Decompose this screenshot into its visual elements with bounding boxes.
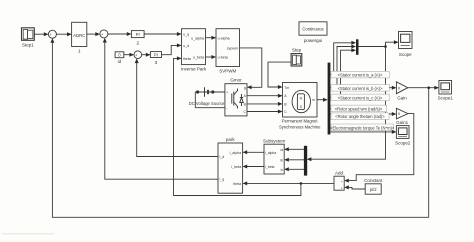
arrowhead into Demux (pointing left) <box>307 157 312 161</box>
arrowhead into Sum2 bottom (pointing up) <box>103 38 107 43</box>
arrowhead into bus selector <box>323 98 328 102</box>
wire DC source loop left <box>194 92 196 108</box>
svg-text:<Stator current is_b (A)>: <Stator current is_b (A)> <box>338 86 383 91</box>
svg-text:u_alpha: u_alpha <box>191 36 204 40</box>
arrowhead into park i_alpha (pointing left) <box>243 150 248 154</box>
svg-text:u_d: u_d <box>183 44 189 48</box>
wire inverter C to PMSM C <box>247 111 282 113</box>
junction on Gain-Scope1 wire <box>427 86 430 89</box>
svg-text:Constant: Constant <box>364 178 383 183</box>
svg-text:<Stator current is_c (A)>: <Stator current is_c (A)> <box>338 95 383 100</box>
wire speed feedback from Gain output to Sum1 <box>52 39 428 217</box>
svg-text:u-alpha: u-alpha <box>218 36 230 40</box>
svg-text:<Stator current is_a (A)>: <Stator current is_a (A)> <box>338 73 383 78</box>
svg-text:m: m <box>312 98 315 102</box>
svg-text:u-beta: u-beta <box>218 56 228 60</box>
sum block Add <box>334 176 344 190</box>
arrowhead into ADRC <box>67 32 72 36</box>
svg-text:+: + <box>341 187 343 191</box>
wire bus row1 is_a to Mux in1 <box>330 43 355 75</box>
svg-text:ib: ib <box>280 158 283 162</box>
svg-text:<Rotor angle thetam (rad)>: <Rotor angle thetam (rad)> <box>335 114 385 119</box>
signal label Electromagnetic torque Te <box>330 124 395 131</box>
svg-text:u_q: u_q <box>183 32 189 36</box>
source DC Voltage Source (battery symbol) <box>196 87 214 96</box>
wire Mux to Scope <box>359 42 398 46</box>
summing junction Sum1 <box>48 30 56 39</box>
arrowhead into Scope1 <box>434 86 439 90</box>
controller block PI 3 <box>150 52 161 58</box>
wire PMSM m to Bus Selector <box>317 99 327 101</box>
svg-text:i_q: i_q <box>219 178 224 182</box>
label Subsystem <box>263 139 286 144</box>
arrowhead into Inverse Park u_q <box>177 32 182 36</box>
wire Demux out2 to Subsystem ib <box>285 159 304 161</box>
scope block Scope1 <box>439 81 452 95</box>
label Inverse Park <box>181 66 207 71</box>
wire Sum3 to PI3 <box>142 54 150 56</box>
svg-text:+: + <box>226 91 228 95</box>
arrowhead into park i_beta (pointing left) <box>243 165 248 169</box>
arrowhead into Sum1 bottom (pointing up) <box>50 38 54 43</box>
wire Step1 to Sum1 <box>34 33 47 35</box>
wire theta branch to Inverse Park theta <box>174 58 301 195</box>
svg-text:Scope2: Scope2 <box>395 140 411 145</box>
arrowhead into Inverse Park u_d <box>177 43 182 47</box>
svg-text:<Electromagnetic torque Te (N*: <Electromagnetic torque Te (N*m)> <box>330 125 395 130</box>
svg-text:Step: Step <box>292 48 302 53</box>
arrowhead into Gain <box>392 86 397 90</box>
signal label Stator current is_b <box>331 85 389 92</box>
svg-text:i_beta: i_beta <box>231 165 241 169</box>
label DC Voltage Source <box>189 101 225 106</box>
arrowhead into PMSM B <box>278 102 283 106</box>
label Scope1 <box>438 95 454 100</box>
label Permanent Magnet Synchronous Machine <box>279 119 321 130</box>
label Scope2 <box>395 140 411 145</box>
mux (black bar) <box>356 39 359 55</box>
constant block 0 (id reference) <box>115 52 124 58</box>
label Add <box>335 171 344 176</box>
junction on theta wire <box>300 182 303 185</box>
transform block park <box>218 143 243 193</box>
signal label Rotor speed wm <box>331 105 387 112</box>
svg-text:pi/2: pi/2 <box>370 187 377 192</box>
label Step <box>292 48 302 53</box>
arrowhead into Scope2 <box>392 130 397 134</box>
arrowhead into Sum1 <box>44 32 49 36</box>
arrowhead into Sum3 <box>129 53 134 57</box>
arrowhead into PMSM A <box>278 94 283 98</box>
source block Step (load torque) <box>291 54 302 66</box>
arrowhead into PI3 <box>146 53 151 57</box>
label Constant <box>364 178 383 183</box>
wire Add theta to park theta <box>243 182 334 184</box>
wire Subsystem i_alpha to park <box>243 151 264 153</box>
svg-text:PI: PI <box>154 52 158 57</box>
arrowhead into inverter gate g (pointing left) <box>247 85 252 89</box>
arrowhead into SVPWM u-beta <box>211 55 216 59</box>
wire bus row6 torque to Scope2 <box>330 131 395 133</box>
svg-text:Subsystem: Subsystem <box>263 139 286 144</box>
arrowhead into park theta (pointing left) <box>243 181 248 185</box>
arrowhead into SVPWM u-alpha <box>211 36 216 40</box>
solver block powergui (Continuous) <box>299 22 327 35</box>
arrowhead into PMSM C <box>278 110 283 114</box>
svg-text:<Rotor speed wm (rad/s)>: <Rotor speed wm (rad/s)> <box>335 106 383 111</box>
label 2 (under PI) <box>136 41 139 46</box>
scope block Scope2 <box>396 126 409 139</box>
svg-text:ADRC: ADRC <box>73 33 85 38</box>
wire inverter A to PMSM A <box>247 95 282 97</box>
wire PI2 to Inverse Park u_q <box>144 33 181 35</box>
wire bus row5 rotor angle to Gain1 <box>330 113 395 115</box>
modulator block SVPWM <box>216 29 240 67</box>
svg-text:powergui: powergui <box>304 38 322 43</box>
svg-text:+: + <box>341 180 343 184</box>
wire mux output branch down to Demux <box>308 47 386 160</box>
arrowhead into Subsystem ib (pointing left) <box>284 158 289 162</box>
controller block ADRC U1 <box>72 22 87 46</box>
machine block PMSM <box>283 83 318 118</box>
svg-text:Tm: Tm <box>284 86 289 90</box>
wire bus row2 is_b to Mux in2 <box>330 47 355 88</box>
svg-text:Synchronous Machine: Synchronous Machine <box>279 125 321 130</box>
wire Gain to Scope1 <box>408 87 438 89</box>
label Gmor (inverter) <box>230 77 242 82</box>
svg-text:i_alpha: i_alpha <box>265 151 276 155</box>
junction on mux-scope wire <box>384 45 387 48</box>
svg-text:u_beta: u_beta <box>193 55 204 59</box>
wire Demux out1 to Subsystem ia <box>285 148 304 150</box>
bus selector (black bar) <box>328 63 331 135</box>
svg-text:theta: theta <box>183 57 191 61</box>
svg-text:i_d: i_d <box>219 155 224 159</box>
svg-text:g: g <box>244 86 246 90</box>
svg-text:i_alpha: i_alpha <box>229 151 241 155</box>
label Step1 <box>22 43 34 48</box>
svg-text:Gain: Gain <box>397 95 407 100</box>
svg-text:Inverse Park: Inverse Park <box>181 66 207 71</box>
arrowhead into Add input1 (pointing left) <box>344 179 349 183</box>
svg-text:Permanent Magnet: Permanent Magnet <box>282 119 318 124</box>
transform block Inverse Park <box>182 29 206 65</box>
label 3 (under PI) <box>155 60 158 65</box>
arrowhead into Mux in3 <box>351 48 356 52</box>
demux (black bar) <box>304 146 307 176</box>
svg-text:id: id <box>118 59 122 64</box>
wire Step to PMSM Tm <box>268 62 291 87</box>
signal label Rotor angle thetam <box>331 113 389 120</box>
controller block PI 2 <box>131 31 144 38</box>
label 1 (under ADRC) <box>78 49 81 54</box>
svg-text:Scope: Scope <box>399 52 412 57</box>
wire Inverse Park u_beta to SVPWM <box>206 56 216 58</box>
label powergui <box>304 38 322 43</box>
svg-text:Gmor: Gmor <box>230 77 242 82</box>
svg-text:theta: theta <box>233 182 241 186</box>
arrowhead into Inverse Park theta <box>177 56 182 60</box>
wire Gain1 to Add input1 <box>345 114 414 181</box>
svg-text:i_beta: i_beta <box>265 165 275 169</box>
svg-text:Gain1: Gain1 <box>396 120 409 125</box>
svg-text:PI: PI <box>136 32 140 37</box>
label id (under constant 0) <box>118 59 122 64</box>
inverter block Gmor (IGBT bridge) <box>225 84 247 116</box>
wire DC source loop bottom <box>195 107 225 109</box>
arrowhead into Mux in1 <box>351 41 356 45</box>
arrowhead into Add input2 (pointing left) <box>344 185 349 189</box>
wire SVPWM svpwm to inverter gate g <box>240 48 262 87</box>
arrowhead into Subsystem ia (pointing left) <box>284 147 289 151</box>
wire bus row3 is_c to Mux in3 <box>330 50 355 97</box>
source block Step1 <box>22 28 35 41</box>
wire Constant id to Sum3 <box>124 54 133 56</box>
arrowhead into Mux in2 <box>351 45 356 49</box>
label Scope <box>399 52 412 57</box>
svg-text:Step1: Step1 <box>22 43 34 48</box>
arrowhead into PMSM Tm <box>278 85 283 89</box>
wire PI3 to Inverse Park u_d <box>162 45 181 54</box>
label SVPWM <box>219 68 236 73</box>
wire ADRC to Sum2 <box>87 33 99 35</box>
arrowhead into Sum2 <box>95 32 100 36</box>
signal label Stator current is_c <box>331 94 389 101</box>
wire bus row4 rotor speed stub <box>330 107 344 109</box>
svg-text:ic: ic <box>281 168 284 172</box>
transform block Subsystem (Clarke) <box>264 144 284 174</box>
gain block Gain <box>396 82 407 94</box>
wire Constant pi/2 to Add input2 <box>345 187 365 189</box>
wire Subsystem i_beta to park <box>243 166 264 168</box>
arrowhead into Scope <box>394 40 399 44</box>
summing junction Sum2 <box>100 30 108 39</box>
signal label Stator current is_a <box>331 71 389 78</box>
svg-text:park: park <box>226 137 236 142</box>
arrowhead into PI2 <box>127 32 132 36</box>
wire DC source loop top <box>195 91 225 93</box>
svg-text:svpwm: svpwm <box>227 47 238 51</box>
scope block Scope <box>399 32 413 49</box>
wire bus row2 is_b to Gain <box>330 87 395 89</box>
wire Demux out3 to Subsystem ic <box>285 168 304 170</box>
svg-text:Scope1: Scope1 <box>438 95 454 100</box>
wire Sum1 to ADRC <box>56 33 70 35</box>
arrowhead into Subsystem ic (pointing left) <box>284 167 289 171</box>
summing junction Sum3 <box>134 51 142 60</box>
arrowhead into Sum3 bottom (pointing up) <box>135 59 139 64</box>
svg-text:Add: Add <box>335 171 344 176</box>
wire park i_q feedback to Sum2 <box>105 39 218 179</box>
label park <box>226 137 236 142</box>
wire park i_d feedback to Sum3 <box>137 59 218 156</box>
wire inverter B to PMSM B <box>247 103 282 105</box>
arrowhead into Gain1 <box>392 112 397 116</box>
label Gain <box>397 95 407 100</box>
label Gain1 <box>396 120 409 125</box>
constant block Constant (pi/2) <box>365 184 381 194</box>
svg-text:ia: ia <box>280 148 283 152</box>
gain block Gain1 <box>396 108 408 119</box>
wire Inverse Park u_alpha to SVPWM <box>206 37 216 39</box>
svg-text:Continuous: Continuous <box>302 27 323 32</box>
wire Sum2 to PI2 <box>108 33 131 35</box>
svg-text:DC Voltage Source: DC Voltage Source <box>189 101 225 106</box>
svg-text:SVPWM: SVPWM <box>219 68 236 73</box>
